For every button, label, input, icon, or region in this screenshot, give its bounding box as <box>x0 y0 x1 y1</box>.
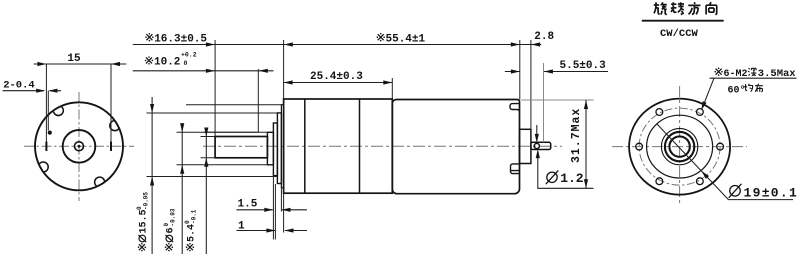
dim line phi15.5 <box>151 97 153 254</box>
ext line shaft tip x215 <box>214 40 216 137</box>
dim line y82.5 (25.4) <box>284 82 393 84</box>
svg-text:5.4: 5.4 <box>187 224 198 242</box>
shaft collar phi6 <box>267 132 273 165</box>
hole top-right <box>696 109 703 116</box>
svg-text:-0.05: -0.05 <box>143 192 150 210</box>
ext lines <box>273 172 283 240</box>
31.7max dim line <box>585 100 587 188</box>
dim 2-0.4: leader <box>3 90 62 92</box>
text phi19 <box>729 184 798 201</box>
dim line y71.5 (5.5) <box>505 71 608 73</box>
dim line phi6 <box>181 123 183 254</box>
svg-text:2.8: 2.8 <box>534 31 554 43</box>
text phi15.5 rotated <box>136 192 150 252</box>
text 5.4 rotated <box>184 209 198 251</box>
svg-text:-0.03: -0.03 <box>170 208 177 226</box>
boss big step phi15.5 <box>277 113 281 184</box>
svg-text:1.5: 1.5 <box>238 198 258 210</box>
svg-text:CW/CCW: CW/CCW <box>660 28 699 40</box>
centerline <box>203 145 562 147</box>
motor can <box>392 100 519 194</box>
output shaft <box>215 137 267 158</box>
gearbox ring line 2 <box>359 99 361 193</box>
centerline horizontal <box>24 145 134 147</box>
leader phi19 <box>657 124 794 200</box>
svg-text:55.4±1: 55.4±1 <box>386 34 426 46</box>
text 10.2 <box>145 52 197 69</box>
svg-text:25.4±0.3: 25.4±0.3 <box>310 71 363 83</box>
hole top-left <box>656 109 663 116</box>
ext line gearbox/motor joint x392.3 <box>391 78 393 99</box>
dim line y71 (10.2) <box>133 70 274 72</box>
glyph xiang <box>706 2 717 14</box>
dim 1 <box>236 230 307 232</box>
small hole 2-0.4 <box>48 131 52 135</box>
centerline horizontal <box>612 146 747 148</box>
svg-text:10.2: 10.2 <box>154 57 180 69</box>
dim 15: line <box>34 63 127 65</box>
hole right <box>717 143 724 150</box>
ext line stub x543.5 <box>543 63 545 142</box>
hole bottom-left <box>656 178 663 185</box>
glyph zhuan <box>671 2 684 14</box>
bolt circle dash-dot <box>639 108 720 185</box>
dim 15: ticks on centerline <box>46 142 111 151</box>
leader 6-M2 to top-right hole <box>702 78 796 108</box>
dim 1.5 <box>236 209 307 211</box>
center dot <box>78 145 81 148</box>
bearing ring bold <box>665 132 694 161</box>
shaft hole ring <box>669 136 689 156</box>
notch top-left <box>53 106 63 116</box>
text 16.3 <box>145 33 207 46</box>
svg-text:+0.2: +0.2 <box>181 52 197 59</box>
stub hole phi1.2 <box>534 143 539 148</box>
rear boss <box>520 129 531 163</box>
rear crimp tab top <box>510 104 520 113</box>
svg-text:6: 6 <box>166 227 177 233</box>
notch bottom-left <box>38 162 48 172</box>
ext line rear boss x530.9 <box>530 40 532 129</box>
svg-text:19±0.1: 19±0.1 <box>744 185 799 200</box>
ext lines phi6 <box>177 132 268 165</box>
centerline vertical <box>78 92 80 201</box>
31.7max top ext line <box>521 99 594 101</box>
glyph jun <box>744 84 753 92</box>
flat line on shaft <box>204 131 258 133</box>
dim line y44.5 (16.3 / 55.4 / 2.8) <box>133 44 541 46</box>
outer circle <box>35 102 123 190</box>
svg-text:15.5: 15.5 <box>139 209 150 233</box>
svg-text:1: 1 <box>238 221 245 233</box>
glyph bu <box>755 84 763 92</box>
notch bottom-right <box>95 177 105 187</box>
ext line motor rear x520 <box>519 40 521 100</box>
inner body circle phi19 <box>647 115 713 178</box>
boss mid step <box>273 123 277 176</box>
hole bottom-right <box>696 178 703 185</box>
svg-text:5.5±0.3: 5.5±0.3 <box>560 60 607 72</box>
svg-text:16.3±0.5: 16.3±0.5 <box>154 34 207 46</box>
notch top-right <box>38 106 120 188</box>
gearbox ring line 1 <box>304 99 306 193</box>
ext lines phi15.5 <box>147 113 278 177</box>
glyph fang <box>688 2 700 14</box>
text phi1.2 <box>546 170 584 186</box>
ext line gearbox face x283.6 <box>283 40 285 99</box>
ext lines 5.4 <box>201 137 216 158</box>
phi1.2 top arrow <box>536 125 538 135</box>
svg-text:31.7Max: 31.7Max <box>570 108 583 163</box>
centerline vertical <box>679 86 681 205</box>
svg-text:15: 15 <box>67 53 81 65</box>
gearbox body <box>284 99 393 193</box>
dim 15: extension lines <box>46 64 111 143</box>
svg-text:3.5Max: 3.5Max <box>758 68 797 80</box>
glyph xuan <box>654 2 667 14</box>
rear crimp tab bottom <box>511 164 520 174</box>
front flange plate <box>281 105 283 188</box>
text phi6 rotated <box>163 208 177 251</box>
svg-text:0: 0 <box>184 60 188 67</box>
svg-text:2-0.4: 2-0.4 <box>3 80 35 92</box>
shaft circle <box>75 142 84 151</box>
outer circle <box>629 99 730 195</box>
flange top ext line <box>186 104 281 106</box>
dim line 5.4 <box>205 128 207 254</box>
hole left <box>636 143 643 150</box>
title underline <box>642 20 724 22</box>
dim 2-0.4: extension to hole <box>47 91 49 131</box>
svg-text:-0.1: -0.1 <box>191 209 198 224</box>
boss circle <box>63 130 96 163</box>
ext line flat end x257.6 <box>257 69 259 132</box>
phi1.2 bottom leader <box>538 156 594 188</box>
text 6-M2 <box>714 68 747 81</box>
text 55.4 <box>377 33 426 46</box>
rear shaft stub <box>531 142 551 149</box>
svg-text:60°: 60° <box>728 84 746 96</box>
glyph shen (depth) <box>748 68 756 76</box>
svg-text:1.2: 1.2 <box>560 171 584 186</box>
svg-text:6-M2: 6-M2 <box>724 69 748 80</box>
bearing ring thin <box>661 128 697 164</box>
